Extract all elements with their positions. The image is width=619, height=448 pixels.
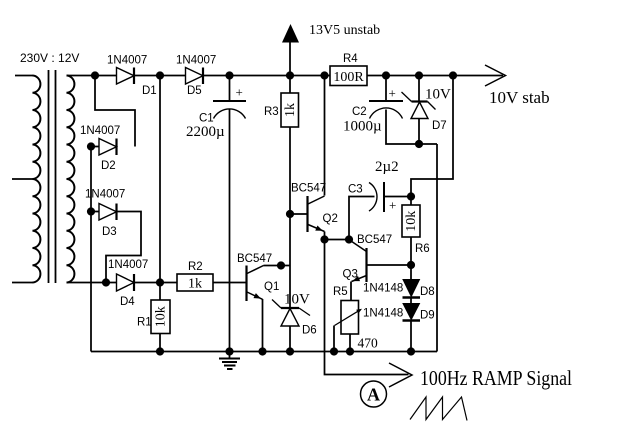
wire D8-D9 link — [410, 298, 412, 305]
svg-text:1N4148: 1N4148 — [363, 283, 403, 295]
node C1 ground junction — [225, 347, 233, 355]
wire ground rail — [91, 351, 437, 353]
capacitor C3 curved plate — [369, 183, 377, 212]
zener diode D7 cathode bar with wings — [412, 100, 428, 102]
svg-text:A: A — [367, 385, 380, 405]
node X junction D4 cathode / R1 / R2 — [156, 278, 164, 286]
wire node X vertical link to top rail — [159, 76, 161, 283]
capacitor C1 positive plate — [213, 100, 246, 102]
wire C3 right lead — [384, 196, 411, 198]
transformer core line left — [48, 70, 50, 283]
node C1 top rail junction — [225, 71, 233, 79]
svg-text:D4: D4 — [120, 296, 135, 308]
zener diode D7 triangle — [411, 102, 428, 119]
diode D9 1N4148 filled — [403, 304, 420, 320]
resistor R1 body — [151, 300, 170, 334]
wire R5 wiper down to ground rail — [333, 326, 335, 352]
node R4 left junction / Q2 collector — [320, 71, 328, 79]
svg-text:C2: C2 — [352, 106, 367, 118]
wire R6 top lead — [410, 197, 412, 206]
output arrow 100Hz ramp — [389, 363, 412, 387]
resistor R3 body — [281, 93, 299, 127]
svg-text:10V: 10V — [284, 292, 310, 308]
wire R3 bottom to Q2 base node and D6 — [289, 127, 291, 308]
power arrow 13V5 unstab — [282, 24, 299, 43]
transformer core line right — [55, 70, 57, 283]
wire Q2 collector up to rail — [324, 76, 326, 196]
node Q3 base junction — [345, 235, 353, 243]
node D6 ground junction — [286, 347, 294, 355]
diode D5 1N4007 — [186, 68, 204, 85]
node Q1 emitter ground junction — [258, 347, 266, 355]
wire D7 anode lead — [418, 119, 420, 145]
wire primary top lead — [15, 75, 33, 77]
wire C1 top lead — [229, 76, 231, 102]
svg-text:100R: 100R — [333, 70, 364, 85]
node D7 anode / C2 junction — [415, 140, 423, 148]
svg-text:Q2: Q2 — [323, 213, 338, 225]
svg-text:D6: D6 — [302, 325, 317, 337]
wire Q1 emitter down to ground rail — [262, 299, 264, 352]
svg-text:13V5 unstab: 13V5 unstab — [309, 23, 380, 38]
wire C1 bottom lead down to ground rail — [229, 110, 231, 352]
node D4 anode junction — [102, 278, 110, 286]
wire Q3 emitter down to R5 — [350, 282, 352, 301]
svg-text:R6: R6 — [415, 243, 430, 255]
resistor R2 body — [177, 274, 213, 291]
diode D4 1N4007 — [117, 274, 135, 291]
node D2 anode junction — [87, 142, 95, 150]
node 10V rail right junction — [449, 71, 457, 79]
wire Q2 emitter to Q3 base node — [325, 239, 350, 241]
svg-text:C1: C1 — [199, 113, 214, 125]
svg-text:R3: R3 — [264, 106, 279, 118]
svg-text:2200µ: 2200µ — [186, 124, 225, 140]
svg-text:1N4007: 1N4007 — [80, 125, 120, 137]
svg-text:D3: D3 — [102, 226, 117, 238]
node A ammeter circle — [361, 381, 387, 407]
svg-text:BC547: BC547 — [237, 253, 272, 265]
svg-text:D1: D1 — [142, 85, 157, 97]
resistor R4 body — [330, 66, 367, 86]
node D1-D5 junction (node X top) — [156, 71, 164, 79]
diode D2 1N4007 — [99, 139, 117, 156]
wire R5 bottom lead — [349, 334, 351, 352]
wire R1 bottom lead — [159, 334, 161, 352]
svg-text:D2: D2 — [101, 160, 116, 172]
wire D2 cathode loop up to top rail — [95, 76, 135, 147]
node C3 / R6 junction — [407, 192, 415, 200]
svg-text:D7: D7 — [432, 120, 447, 132]
resistor R6 body — [402, 205, 420, 237]
wire R1 top lead — [159, 283, 161, 301]
svg-text:100Hz RAMP Signal: 100Hz RAMP Signal — [420, 366, 572, 390]
wire Q2 base lead — [290, 213, 308, 215]
node R5 ground junction — [346, 347, 354, 355]
wire top rail from secondary top through D1 D5 R4 to output arrow — [67, 75, 504, 77]
resistor R5 body (trimmer) — [341, 301, 359, 335]
capacitor C3 straight plate — [383, 182, 385, 212]
wire C3 left lead from Q3 base node — [349, 197, 375, 240]
wire D2 anode stub — [91, 146, 99, 148]
svg-text:1N4148: 1N4148 — [363, 308, 403, 320]
transformer T1 primary winding 230V — [33, 76, 41, 283]
svg-text:1000µ: 1000µ — [343, 119, 382, 135]
svg-text:1N4007: 1N4007 — [107, 55, 147, 67]
wire C2 top lead — [385, 76, 387, 102]
wire Q3 collector to R6/D8 node — [367, 264, 412, 266]
svg-text:10k: 10k — [154, 306, 169, 327]
svg-text:D8: D8 — [420, 286, 435, 298]
svg-text:1N4007: 1N4007 — [85, 189, 125, 201]
wire R6 bottom lead to D8 — [410, 237, 412, 280]
wire 100Hz ramp output line — [325, 240, 409, 375]
ground symbol — [229, 352, 231, 358]
transistor Q2 BC547 — [306, 196, 308, 232]
svg-text:D5: D5 — [187, 85, 202, 97]
svg-text:R5: R5 — [333, 286, 348, 298]
node Q2 base junction — [286, 210, 294, 218]
node R1 ground junction — [156, 347, 164, 355]
svg-text:10V: 10V — [425, 87, 451, 103]
svg-text:Q1: Q1 — [264, 281, 279, 293]
node D7 top rail junction — [415, 71, 423, 79]
svg-text:R2: R2 — [188, 261, 203, 273]
sawtooth waveform symbol — [410, 397, 467, 421]
svg-text:+: + — [389, 86, 396, 101]
wire C2 bottom lead to D7 anode node — [386, 110, 437, 145]
svg-text:R1: R1 — [137, 317, 152, 329]
wire primary middle tap lead — [12, 178, 33, 180]
svg-text:R4: R4 — [343, 53, 358, 65]
trimmer R5 wiper arrow — [335, 310, 361, 326]
output arrow 10V stab — [485, 65, 506, 86]
diode D1 1N4007 — [117, 68, 135, 85]
svg-text:C3: C3 — [348, 184, 363, 196]
wire primary bottom lead — [12, 282, 33, 284]
svg-text:2µ2: 2µ2 — [375, 159, 399, 175]
node R5 wiper ground junction — [330, 347, 338, 355]
svg-text:+: + — [389, 198, 396, 213]
diode D3 1N4007 — [99, 204, 117, 221]
node D9 ground junction — [407, 347, 415, 355]
wire R3 top lead — [289, 76, 291, 94]
transformer T1 secondary winding 12V — [67, 76, 75, 283]
wire D3 anode stub — [91, 211, 99, 213]
wire from 10V rail down to C3/R6 node — [411, 76, 453, 197]
wire D3 cathode loop down to AC-bottom wire — [106, 212, 141, 283]
capacitor C2 positive plate — [369, 100, 403, 102]
node R4 right junction / C2 — [382, 71, 390, 79]
node Q2 emitter / output junction — [320, 235, 328, 243]
node D3 anode junction — [87, 207, 95, 215]
svg-text:+: + — [236, 85, 243, 100]
svg-text:BC547: BC547 — [357, 234, 392, 246]
node R3 / 13V5 junction — [286, 71, 294, 79]
svg-text:10k: 10k — [404, 211, 419, 232]
zener diode D6 cathode bar with wings — [281, 307, 299, 309]
wire AC bottom row from secondary bottom through D4 and R2 to Q1 base — [67, 282, 247, 284]
wire D9 anode to ground rail — [410, 321, 412, 352]
svg-text:1k: 1k — [283, 103, 298, 117]
svg-text:1k: 1k — [188, 277, 202, 292]
wire D7 cathode lead — [418, 76, 420, 102]
transistor Q3 BC547 (mirrored) — [365, 248, 367, 282]
capacitor C1 curved plate — [214, 109, 246, 119]
svg-text:BC547: BC547 — [291, 183, 326, 195]
wire D7 node down right side to ground rail — [436, 144, 438, 352]
wire D6 anode to ground rail — [289, 326, 291, 352]
wire D2-D3 anode bus down to ground rail — [90, 147, 92, 352]
node Q1 collector junction — [277, 261, 285, 269]
svg-text:Q3: Q3 — [343, 269, 358, 281]
wire Q1 collector to R3/D6 line — [264, 265, 291, 267]
capacitor C2 curved plate — [370, 108, 403, 119]
diode D8 1N4148 filled — [403, 280, 420, 297]
node R6 / Q3 collector / D8 junction — [407, 261, 415, 269]
svg-text:230V : 12V: 230V : 12V — [20, 51, 79, 65]
svg-text:10V stab: 10V stab — [489, 88, 550, 107]
svg-text:1N4007: 1N4007 — [108, 259, 148, 271]
wire Q2 emitter down to output node — [324, 232, 326, 240]
node secondary-top junction — [91, 71, 99, 79]
svg-text:D9: D9 — [420, 310, 435, 322]
zener diode D6 triangle — [281, 309, 299, 327]
svg-text:1N4007: 1N4007 — [176, 55, 216, 67]
transistor Q1 BC547 — [245, 266, 247, 302]
svg-text:470: 470 — [358, 336, 379, 351]
